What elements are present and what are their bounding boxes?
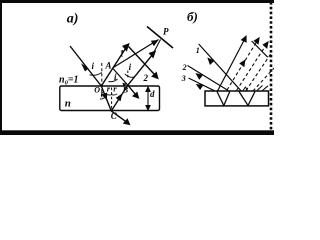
svg-text:n: n	[65, 97, 71, 109]
normal at C (dashed)	[111, 88, 113, 111]
svg-text:C: C	[111, 111, 118, 121]
segment A-B	[113, 68, 128, 85]
ray 2 from B with arrow, continues to P	[128, 40, 161, 86]
svg-text:а): а)	[67, 12, 79, 27]
svg-text:P: P	[163, 26, 169, 36]
angle i left arc	[90, 73, 102, 76]
slab (plate) a	[60, 86, 160, 111]
normal at O (dashed)	[101, 63, 103, 98]
refracted ray O-C with mid arrow	[101, 86, 111, 111]
normal dash at B + angle i	[127, 71, 129, 79]
slab b	[205, 91, 269, 106]
svg-text:A: A	[105, 61, 112, 71]
small marks above surface	[243, 87, 248, 90]
svg-text:B: B	[122, 85, 129, 95]
svg-text:1: 1	[120, 49, 125, 59]
fan ray U3 dashed	[237, 42, 269, 91]
border frame	[0, 0, 274, 135]
internal V path 1	[217, 92, 230, 106]
fan ray U4 dashed	[246, 52, 272, 91]
d thickness marker	[146, 87, 150, 110]
line A to P with arrow	[113, 40, 159, 69]
incident ray	[70, 46, 101, 86]
right border dotted	[270, 2, 273, 131]
screen line through P	[147, 27, 173, 49]
svg-text:d: d	[150, 89, 155, 99]
ray 1	[101, 44, 128, 86]
falling ray arrow labelled 2	[129, 47, 158, 79]
angle i right arc + label	[109, 79, 118, 82]
svg-text:б): б)	[187, 9, 198, 24]
incident ray 1	[199, 44, 241, 91]
internal reflection at B going down-right	[128, 85, 139, 98]
svg-text:2: 2	[182, 63, 187, 72]
svg-text:1: 1	[196, 46, 200, 55]
svg-text:n0=1: n0=1	[59, 75, 79, 87]
incident ray 3	[189, 78, 215, 91]
fan ray U2 dashed	[227, 38, 259, 90]
ray C-B with mid arrow	[111, 85, 128, 111]
svg-text:3: 3	[181, 74, 186, 83]
internal V path 2	[239, 92, 255, 106]
descending line D1	[252, 41, 268, 57]
incident ray 2	[188, 66, 229, 91]
reflected fan ray U1 solid	[218, 36, 247, 91]
svg-text:O: O	[94, 86, 100, 95]
transmitted ray below C	[111, 111, 129, 124]
arcs at C	[106, 94, 112, 95]
fan ray U5 dashed shallow	[253, 68, 274, 91]
svg-text:2: 2	[143, 73, 149, 83]
